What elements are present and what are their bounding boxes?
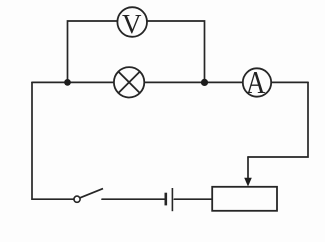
- wire voltmeter branch right: [147, 21, 204, 82]
- wire switch to battery: [102, 198, 164, 200]
- wire right vertical down: [248, 82, 308, 157]
- wire slider arrow stem: [247, 157, 249, 181]
- wire ammeter to right corner: [271, 81, 308, 83]
- svg-text:A: A: [246, 66, 265, 100]
- rheostat: [212, 187, 277, 211]
- wire main horizontal left: [32, 81, 114, 83]
- switch S: [74, 189, 103, 203]
- ammeter A: [243, 66, 271, 100]
- wire bottom from left corner to switch: [32, 198, 74, 200]
- slider arrowhead: [244, 178, 252, 187]
- node junction left: [64, 79, 71, 86]
- wire lamp to ammeter: [144, 81, 242, 83]
- svg-text:V: V: [122, 9, 142, 39]
- wire battery to rheostat: [174, 198, 212, 200]
- wire voltmeter branch left: [68, 21, 118, 82]
- battery cell: [166, 188, 173, 211]
- voltmeter V: [117, 7, 147, 39]
- lamp: [114, 67, 144, 97]
- wire left vertical: [31, 82, 33, 199]
- node junction right: [201, 79, 208, 86]
